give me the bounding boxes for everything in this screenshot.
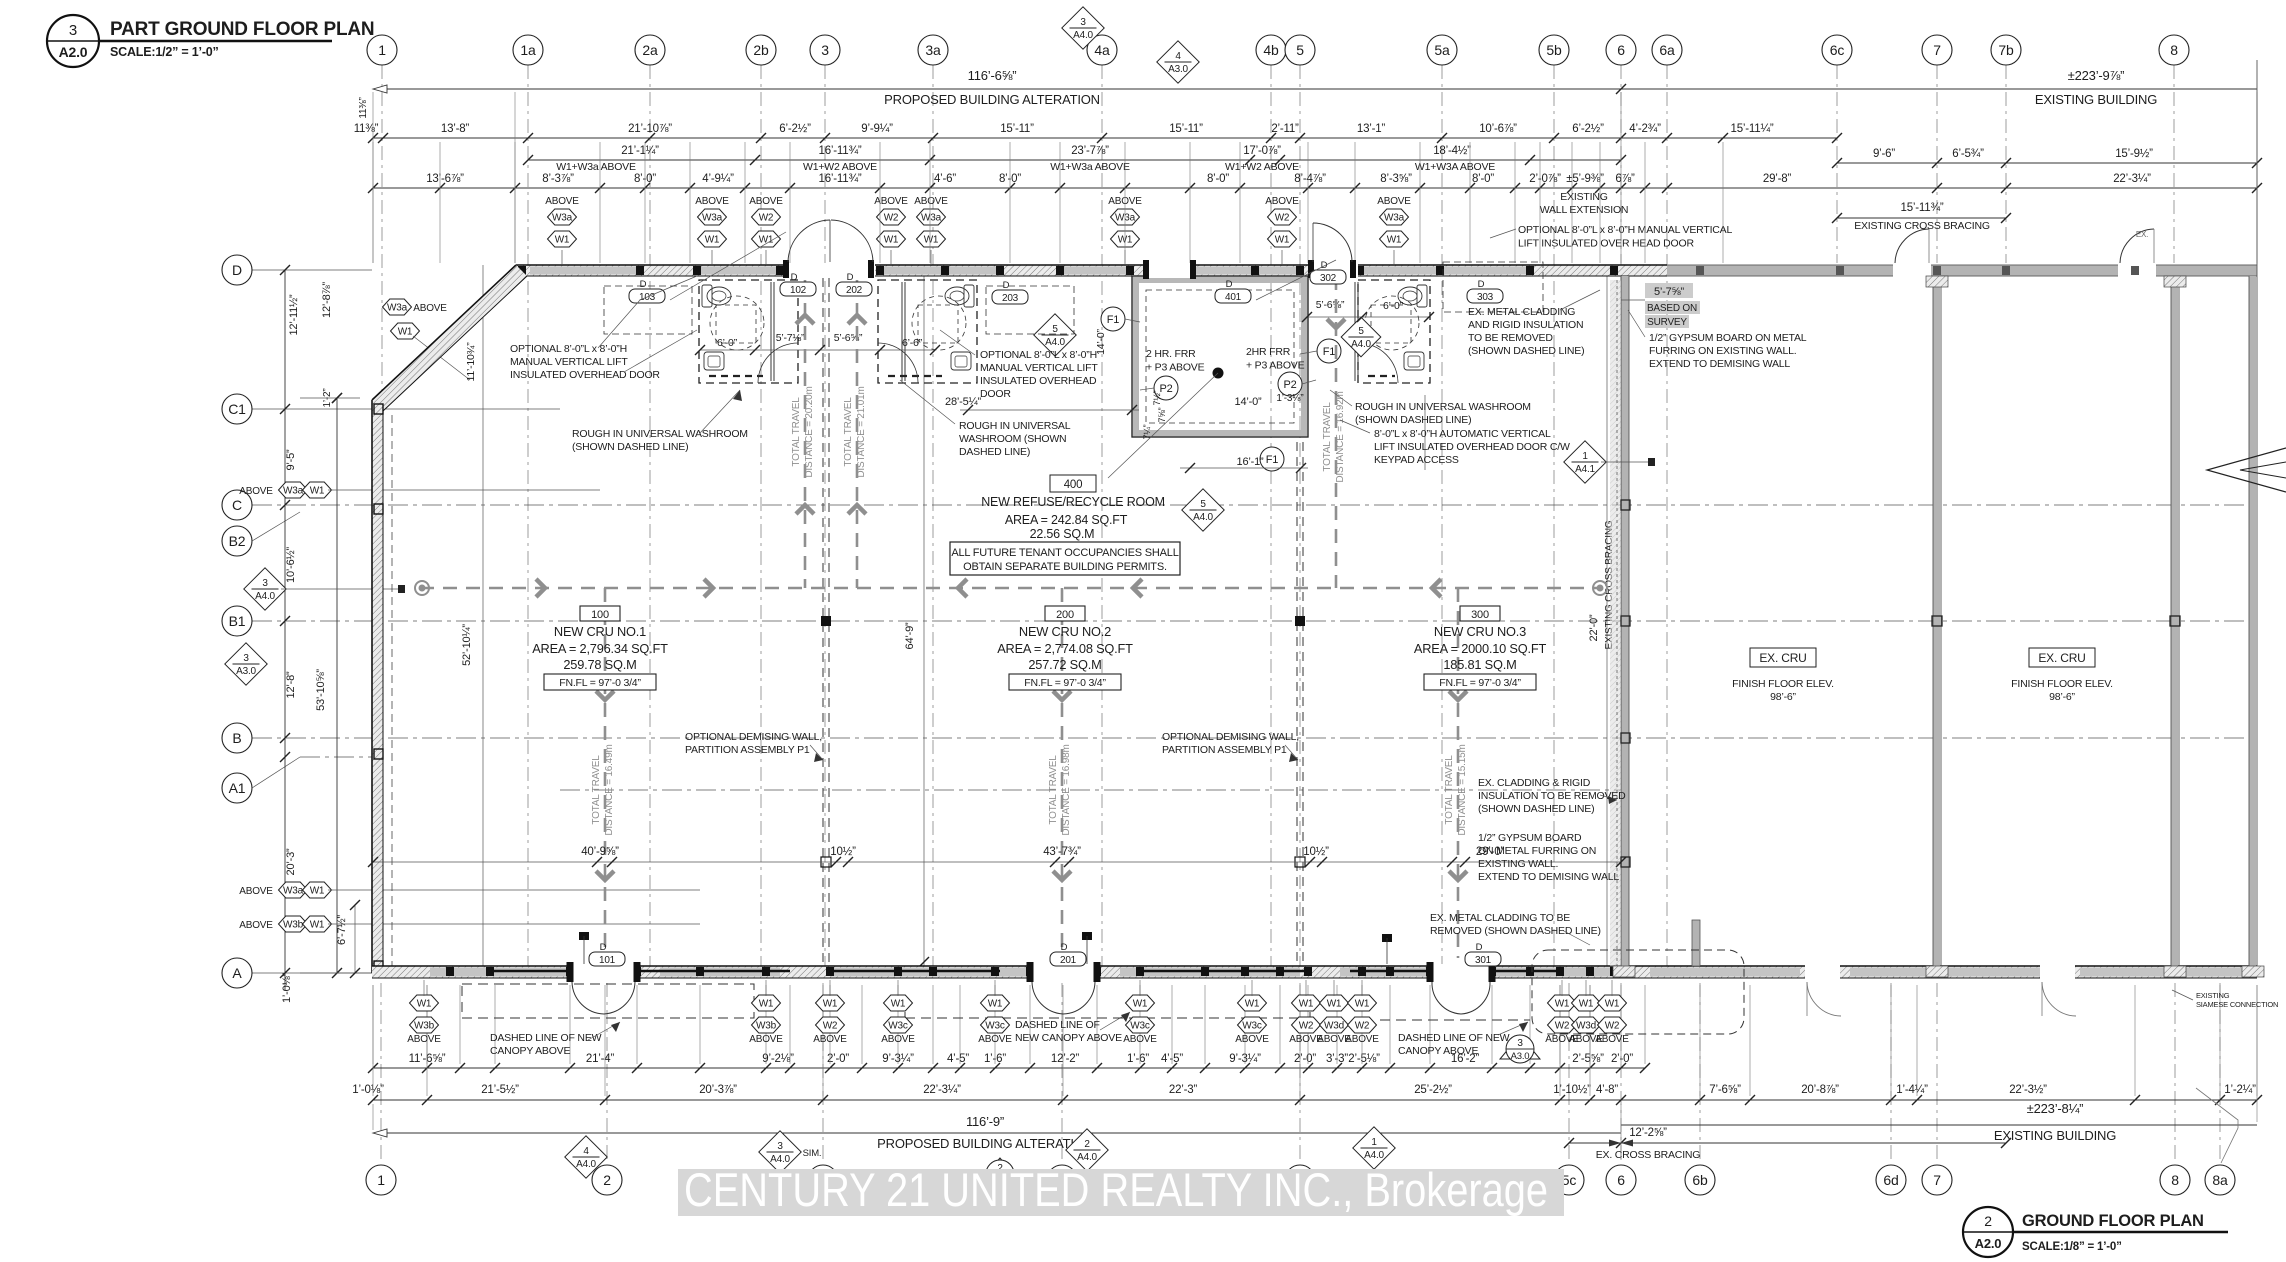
svg-text:D: D <box>600 942 607 953</box>
svg-text:102: 102 <box>790 285 807 296</box>
grid bubble 7 top <box>1922 35 1952 65</box>
door tag 302 <box>1310 260 1346 284</box>
svg-text:±223’-9⅞”: ±223’-9⅞” <box>2068 68 2125 83</box>
refuse diamond 5/A4.0 top <box>1034 314 1076 356</box>
svg-text:7¼”: 7¼” <box>1142 424 1152 439</box>
svg-text:ABOVE: ABOVE <box>239 486 273 497</box>
svg-text:EXISTING: EXISTING <box>2196 991 2230 1000</box>
svg-text:ABOVE: ABOVE <box>1377 196 1411 207</box>
title block top-left <box>47 15 99 67</box>
dimension row 2 top right <box>1837 162 2257 164</box>
svg-text:6’-0”: 6’-0” <box>717 337 738 349</box>
grid bubble 5a top <box>1427 35 1457 65</box>
overall dimension line top <box>373 88 2257 90</box>
svg-text:4: 4 <box>1175 51 1181 62</box>
svg-text:F1: F1 <box>1323 346 1336 358</box>
svg-text:PROPOSED BUILDING ALTERATION: PROPOSED BUILDING ALTERATION <box>877 1136 1093 1151</box>
left small dim lines <box>300 397 360 399</box>
refuse dim lines <box>960 409 1139 411</box>
svg-text:A4.0: A4.0 <box>576 1159 596 1170</box>
svg-text:W2: W2 <box>1555 1021 1570 1032</box>
svg-text:W1: W1 <box>310 886 325 897</box>
door tag 103 <box>629 279 665 303</box>
svg-text:W3a: W3a <box>387 303 408 314</box>
bottom double door grid 5a <box>1432 982 1461 1014</box>
svg-text:BASED ON: BASED ON <box>1647 303 1697 314</box>
svg-text:185.81 SQ.M: 185.81 SQ.M <box>1443 657 1516 672</box>
canopy rounded dashed at grid 6 <box>1532 950 1744 1034</box>
door tag 303 <box>1467 279 1503 303</box>
leader optional door left note <box>624 330 697 372</box>
svg-text:OBTAIN SEPARATE BUILDING PE: OBTAIN SEPARATE BUILDING PERMITS. <box>963 561 1167 573</box>
svg-text:C: C <box>232 497 242 513</box>
svg-text:23’-7⅞”: 23’-7⅞” <box>1071 145 1109 157</box>
svg-text:8’-3⅝”: 8’-3⅝” <box>1380 173 1412 185</box>
svg-text:5b: 5b <box>1546 42 1562 58</box>
svg-text:W3a: W3a <box>1384 213 1405 224</box>
svg-text:PARTITION ASSEMBLY P1: PARTITION ASSEMBLY P1 <box>685 744 810 756</box>
svg-text:GROUND FLOOR PLAN: GROUND FLOOR PLAN <box>2022 1212 2204 1230</box>
insulation hatch band left of grid 6 wall <box>1610 280 1621 966</box>
grid bubble 6d bottom <box>1876 1165 1906 1195</box>
svg-text:W3b: W3b <box>414 1021 435 1032</box>
dimension row 3 top <box>373 187 1667 189</box>
svg-text:W1: W1 <box>1245 999 1260 1010</box>
svg-text:SURVEY: SURVEY <box>1647 317 1687 328</box>
svg-text:A2.0: A2.0 <box>1975 1236 2002 1251</box>
svg-text:1’-2¼”: 1’-2¼” <box>2224 1084 2256 1096</box>
svg-text:FINISH FLOOR ELEV.: FINISH FLOOR ELEV. <box>2011 678 2113 690</box>
svg-text:ABOVE: ABOVE <box>1235 1034 1269 1045</box>
svg-text:8’-0”: 8’-0” <box>1472 173 1494 185</box>
grid bubble 1 top <box>367 35 397 65</box>
svg-text:8’-3⅞”: 8’-3⅞” <box>542 173 574 185</box>
svg-text:OPTIONAL 8’-0”L x 8’-0”H: OPTIONAL 8’-0”L x 8’-0”H <box>980 349 1097 361</box>
svg-text:8’-0”: 8’-0” <box>1207 173 1229 185</box>
svg-text:25’-2½”: 25’-2½” <box>1414 1084 1452 1096</box>
row bubble B2 leader <box>252 512 300 541</box>
svg-text:9’-9¼”: 9’-9¼” <box>861 123 893 135</box>
svg-text:15’-11”: 15’-11” <box>1000 123 1034 135</box>
demising wall column squares <box>821 616 831 626</box>
svg-text:MANUAL VERTICAL LIFT: MANUAL VERTICAL LIFT <box>510 356 628 368</box>
svg-text:21’-10⅞”: 21’-10⅞” <box>628 123 672 135</box>
room finish floor tag 200 <box>1009 674 1121 690</box>
svg-text:8’-4⅞”: 8’-4⅞” <box>1294 173 1326 185</box>
svg-text:TOTAL TRAVEL: TOTAL TRAVEL <box>1444 755 1455 825</box>
svg-text:W1: W1 <box>1133 999 1148 1010</box>
svg-text:W3b: W3b <box>756 1021 777 1032</box>
svg-text:7½”: 7½” <box>1152 390 1162 405</box>
svg-text:203: 203 <box>1002 293 1019 304</box>
svg-text:SCALE:1/2” = 1’-0”: SCALE:1/2” = 1’-0” <box>110 45 219 59</box>
svg-text:1’-0⅛”: 1’-0⅛” <box>352 1084 384 1096</box>
top diamond 4/A3.0 <box>1157 41 1199 83</box>
travel vertical washroom a <box>804 280 807 588</box>
svg-text:17’-0⅞”: 17’-0⅞” <box>1243 145 1281 157</box>
svg-text:4’-8”: 4’-8” <box>1596 1084 1618 1096</box>
svg-text:10’-6½”: 10’-6½” <box>285 547 297 583</box>
refuse tag F1 b <box>1317 339 1341 363</box>
svg-text:OPTIONAL 8’-0”L x 8’-0”H M: OPTIONAL 8’-0”L x 8’-0”H MANUAL VERTICAL <box>1518 224 1732 236</box>
svg-text:DISTANCE = 16.92m: DISTANCE = 16.92m <box>1335 391 1346 482</box>
svg-text:201: 201 <box>1060 955 1077 966</box>
refuse tag F1 c <box>1260 447 1284 471</box>
diamond 1/A4.1 <box>1564 441 1606 483</box>
svg-text:D: D <box>1226 279 1233 290</box>
grid bubble 5 bottom <box>1285 1165 1315 1195</box>
washroom zone dashed CRU3 <box>1443 262 1543 312</box>
svg-text:DISTANCE = 15.15m: DISTANCE = 15.15m <box>1457 744 1468 835</box>
svg-text:ABOVE: ABOVE <box>413 303 447 314</box>
bottom symbol 2/A3.0 <box>978 1158 1022 1184</box>
svg-text:13’-6⅞”: 13’-6⅞” <box>426 173 464 185</box>
svg-text:11⅜”: 11⅜” <box>358 97 369 118</box>
svg-text:KEYPAD ACCESS: KEYPAD ACCESS <box>1374 454 1459 466</box>
svg-text:15’-11¾”: 15’-11¾” <box>1901 202 1944 214</box>
symbol 3/A3.0 circle right <box>1500 1035 1540 1059</box>
svg-text:10½”: 10½” <box>830 846 856 858</box>
door tag 202 <box>836 272 872 296</box>
svg-text:64’-9”: 64’-9” <box>904 622 916 649</box>
svg-text:P2: P2 <box>1283 379 1296 391</box>
diagonal wall top-left corner <box>372 265 527 411</box>
svg-text:W1+W2 ABOVE: W1+W2 ABOVE <box>1225 161 1299 173</box>
svg-text:21’-4”: 21’-4” <box>586 1053 615 1065</box>
svg-text:INSULATED OVERHEAD: INSULATED OVERHEAD <box>980 375 1097 387</box>
svg-text:C1: C1 <box>228 401 246 417</box>
svg-text:3: 3 <box>777 1141 783 1152</box>
svg-text:1: 1 <box>1371 1137 1377 1148</box>
svg-text:D: D <box>791 272 798 283</box>
svg-text:FINISH FLOOR ELEV.: FINISH FLOOR ELEV. <box>1732 678 1834 690</box>
refuse room door opening <box>1146 263 1190 278</box>
svg-text:WASHROOM (SHOWN: WASHROOM (SHOWN <box>959 433 1066 445</box>
svg-text:5a: 5a <box>1434 42 1450 58</box>
door tag 102 <box>780 272 816 296</box>
top wall door jambs <box>783 260 1356 278</box>
svg-text:4a: 4a <box>1094 42 1110 58</box>
svg-text:401: 401 <box>1225 292 1242 303</box>
svg-text:1: 1 <box>378 42 386 58</box>
row bubble C <box>222 490 252 520</box>
svg-text:3: 3 <box>243 653 249 664</box>
svg-text:1: 1 <box>1582 451 1588 462</box>
svg-text:22’-0”: 22’-0” <box>1588 614 1600 641</box>
door center markers bottom <box>579 932 589 940</box>
svg-text:DASHED LINE OF NEW: DASHED LINE OF NEW <box>490 1032 602 1044</box>
top diamond 3/A4.0 <box>1062 7 1104 49</box>
svg-text:A1: A1 <box>229 780 246 796</box>
svg-text:W3c: W3c <box>1242 1021 1262 1032</box>
svg-text:7b: 7b <box>1998 42 2014 58</box>
svg-text:D: D <box>1476 942 1483 953</box>
svg-text:10½”: 10½” <box>1303 846 1329 858</box>
svg-text:DOOR: DOOR <box>980 388 1011 400</box>
svg-text:4’-2¾”: 4’-2¾” <box>1629 123 1661 135</box>
room tag 100 <box>580 606 620 621</box>
svg-text:2: 2 <box>1084 1139 1090 1150</box>
svg-text:A4.0: A4.0 <box>1193 512 1213 523</box>
overall dimension line bottom <box>373 1132 1621 1134</box>
svg-text:43’-7¾”: 43’-7¾” <box>1043 846 1081 858</box>
svg-text:EX. METAL CLADDING TO BE: EX. METAL CLADDING TO BE <box>1430 912 1570 924</box>
svg-text:W2: W2 <box>1605 1021 1620 1032</box>
svg-text:A3.0: A3.0 <box>1168 64 1188 75</box>
svg-text:9’-5”: 9’-5” <box>285 449 297 471</box>
row bubble A1 leader <box>252 757 300 788</box>
grid bubble 6b bottom <box>1685 1165 1715 1195</box>
svg-text:116’-6⅝”: 116’-6⅝” <box>968 68 1017 83</box>
svg-text:TOTAL TRAVEL: TOTAL TRAVEL <box>843 397 854 467</box>
row bubble C1 <box>222 394 252 424</box>
svg-text:SCALE:1/8” = 1’-0”: SCALE:1/8” = 1’-0” <box>2022 1241 2122 1253</box>
svg-text:EXISTING WALL.: EXISTING WALL. <box>1478 858 1558 870</box>
svg-text:OPTIONAL DEMISING WALL,: OPTIONAL DEMISING WALL, <box>685 731 822 743</box>
svg-text:ABOVE: ABOVE <box>914 196 948 207</box>
svg-text:FURRING ON EXISTING WALL.: FURRING ON EXISTING WALL. <box>1649 345 1796 357</box>
svg-text:D: D <box>1003 280 1010 291</box>
svg-text:101: 101 <box>599 955 616 966</box>
svg-text:6d: 6d <box>1883 1172 1898 1188</box>
travel vertical refuse <box>1335 276 1338 588</box>
grid bubble 5b top <box>1539 35 1569 65</box>
svg-text:B1: B1 <box>229 613 246 629</box>
svg-text:CENTURY 21 UNITED REALTY INC.,: CENTURY 21 UNITED REALTY INC., Brokerage <box>684 1163 1548 1216</box>
grid6 survey dim line <box>1621 299 1645 301</box>
left wall inner dashed line <box>391 415 393 966</box>
svg-text:A4.1: A4.1 <box>1575 464 1595 475</box>
svg-text:MANUAL VERTICAL LIFT: MANUAL VERTICAL LIFT <box>980 362 1098 374</box>
svg-text:W1: W1 <box>1387 235 1402 246</box>
svg-text:20’-3”: 20’-3” <box>285 848 297 875</box>
top double door at grid 3 <box>788 220 830 262</box>
travel vertical CRU3 <box>1457 588 1460 958</box>
svg-text:W1: W1 <box>1355 999 1370 1010</box>
demising wall at grid 5 <box>1296 442 1298 964</box>
svg-text:W1+W3a ABOVE: W1+W3a ABOVE <box>1050 161 1130 173</box>
svg-text:16’-11¾”: 16’-11¾” <box>819 145 862 157</box>
svg-text:15’-9½”: 15’-9½” <box>2115 148 2153 160</box>
extension lines bottom <box>373 985 2257 1160</box>
svg-text:ABOVE: ABOVE <box>813 1034 847 1045</box>
svg-text:+ P3 ABOVE: + P3 ABOVE <box>1146 362 1205 374</box>
dimension row 1 bottom <box>373 1067 1645 1069</box>
row bubble B2 <box>222 526 252 556</box>
door tag 101 <box>589 942 625 966</box>
door tag 301 <box>1465 942 1501 966</box>
svg-text:22’-3¼”: 22’-3¼” <box>2113 173 2151 185</box>
svg-text:5’-7⅝”: 5’-7⅝” <box>1654 286 1685 298</box>
svg-text:12’-8⅞”: 12’-8⅞” <box>321 282 333 318</box>
svg-text:28’-5¼”: 28’-5¼” <box>945 396 981 408</box>
travel path start dot <box>415 581 429 595</box>
svg-text:TOTAL TRAVEL: TOTAL TRAVEL <box>591 755 602 825</box>
bottom hexagon stacks <box>410 995 439 1011</box>
svg-text:3: 3 <box>1080 17 1086 28</box>
room tag 200 <box>1045 606 1085 621</box>
svg-text:NEW CRU NO.3: NEW CRU NO.3 <box>1434 624 1526 639</box>
row bubble A1 <box>222 773 252 803</box>
svg-text:W2: W2 <box>1275 213 1290 224</box>
svg-text:NEW CRU NO.1: NEW CRU NO.1 <box>554 624 646 639</box>
svg-text:PARTITION ASSEMBLY P1: PARTITION ASSEMBLY P1 <box>1162 744 1287 756</box>
grid bubble 5c bottom <box>1554 1165 1584 1195</box>
svg-text:1’-4¼”: 1’-4¼” <box>1896 1084 1928 1096</box>
svg-text:DASHED LINE OF NEW: DASHED LINE OF NEW <box>1398 1032 1510 1044</box>
svg-text:9’-6”: 9’-6” <box>1873 148 1895 160</box>
svg-text:FN.FL = 97’-0 3/4”: FN.FL = 97’-0 3/4” <box>1439 677 1521 689</box>
svg-text:2’-5⅛”: 2’-5⅛” <box>1348 1053 1380 1065</box>
svg-text:5: 5 <box>1052 324 1058 335</box>
existing wall stub near 6b <box>1692 920 1700 966</box>
canopy dashed CRU1 <box>462 984 754 1018</box>
svg-text:W2: W2 <box>1299 1021 1314 1032</box>
svg-text:200: 200 <box>1056 609 1074 621</box>
svg-text:3: 3 <box>1517 1038 1523 1049</box>
svg-text:9’-2⅛”: 9’-2⅛” <box>762 1053 794 1065</box>
left wall <box>372 400 383 973</box>
svg-text:ABOVE: ABOVE <box>749 196 783 207</box>
svg-text:7: 7 <box>1933 1172 1941 1188</box>
room finish floor tag 300 <box>1424 674 1536 690</box>
svg-text:D: D <box>640 279 647 290</box>
svg-text:W1: W1 <box>823 999 838 1010</box>
svg-text:2’-5⅝”: 2’-5⅝” <box>1572 1053 1604 1065</box>
svg-text:W1: W1 <box>1118 235 1133 246</box>
bottom wall door openings <box>570 964 2075 980</box>
svg-text:7: 7 <box>1933 42 1941 58</box>
svg-text:A4.0: A4.0 <box>255 591 275 602</box>
svg-text:NEW REFUSE/RECYCLE ROOM: NEW REFUSE/RECYCLE ROOM <box>981 495 1165 509</box>
existing interior wall at grid 7 <box>1933 276 1941 966</box>
svg-text:W1: W1 <box>891 999 906 1010</box>
svg-text:W1: W1 <box>310 486 325 497</box>
svg-text:ROUGH IN UNIVERSAL: ROUGH IN UNIVERSAL <box>959 420 1071 432</box>
svg-text:REMOVED (SHOWN DASHED LINE): REMOVED (SHOWN DASHED LINE) <box>1430 925 1601 937</box>
svg-text:53’-10⅝”: 53’-10⅝” <box>315 669 327 711</box>
grid bubble 4a top <box>1087 35 1117 65</box>
svg-text:AREA = 2,774.08 SQ.FT: AREA = 2,774.08 SQ.FT <box>997 641 1133 656</box>
svg-text:1a: 1a <box>520 42 536 58</box>
hexagons W3a ABOVE on diagonal <box>383 299 412 315</box>
svg-text:6c: 6c <box>1830 42 1845 58</box>
travel path horizontal <box>420 587 1600 590</box>
washroom 1 rough-in <box>699 280 798 383</box>
svg-text:EX. CRU: EX. CRU <box>2038 651 2085 665</box>
svg-text:NEW CRU NO.2: NEW CRU NO.2 <box>1019 624 1111 639</box>
bottom diamonds <box>565 1136 607 1178</box>
svg-text:W3a: W3a <box>702 213 723 224</box>
svg-text:EXTEND TO DEMISING WALL: EXTEND TO DEMISING WALL <box>1649 358 1790 370</box>
demising wall new-existing at grid 6 <box>1621 276 1629 966</box>
svg-text:W1: W1 <box>310 920 325 931</box>
svg-text:A4.0: A4.0 <box>1045 337 1065 348</box>
svg-text:D: D <box>847 272 854 283</box>
svg-text:TO BE REMOVED: TO BE REMOVED <box>1468 332 1553 344</box>
bottom double door grid 2 <box>572 982 604 1014</box>
svg-text:1’-0⅛”: 1’-0⅛” <box>281 972 293 1003</box>
svg-text:22’-3½”: 22’-3½” <box>2009 1084 2047 1096</box>
svg-text:29’-8”: 29’-8” <box>1763 173 1792 185</box>
svg-text:259.78 SQ.M: 259.78 SQ.M <box>563 657 636 672</box>
existing door arc bottom 2 <box>2042 982 2076 1016</box>
svg-text:40’-9⅝”: 40’-9⅝” <box>581 846 619 858</box>
svg-text:EXTEND TO DEMISING WALL: EXTEND TO DEMISING WALL <box>1478 871 1619 883</box>
interior vertical dim 52-10 <box>482 265 484 971</box>
svg-text:SIAMESE CONNECTION: SIAMESE CONNECTION <box>2196 1000 2278 1009</box>
svg-text:A4.0: A4.0 <box>1073 30 1093 41</box>
dim 12'-2 5/8 ex cross bracing bottom <box>1569 1142 2006 1144</box>
travel chevrons horizontal <box>536 579 545 597</box>
interior vertical dim 64-9 <box>923 271 925 971</box>
canopy dashed CRU2 <box>905 1017 1310 1019</box>
svg-text:W1: W1 <box>398 327 413 338</box>
grid bubble 6c top <box>1822 35 1852 65</box>
travel vertical CRU1 <box>604 588 607 958</box>
svg-text:22’-3”: 22’-3” <box>1169 1084 1198 1096</box>
svg-text:2’-0”: 2’-0” <box>1611 1053 1633 1065</box>
svg-text:D: D <box>1321 260 1328 271</box>
svg-text:14’-0”: 14’-0” <box>1235 396 1262 408</box>
svg-text:W3a: W3a <box>552 213 573 224</box>
svg-text:2’-11”: 2’-11” <box>1271 123 1299 135</box>
svg-text:ON METAL FURRING ON: ON METAL FURRING ON <box>1478 845 1596 857</box>
top wall band existing building <box>1621 265 2257 276</box>
svg-text:ABOVE: ABOVE <box>1123 1034 1157 1045</box>
svg-text:18’-4½”: 18’-4½” <box>1433 145 1471 157</box>
left diamond 3/A3.0 <box>225 643 267 685</box>
existing right edge wall <box>2249 60 2257 966</box>
gypsum dashed line at grid 6 wall <box>1616 280 1618 966</box>
svg-text:4’-9¼”: 4’-9¼” <box>702 173 734 185</box>
svg-text:EX. CRU: EX. CRU <box>1759 651 1806 665</box>
svg-text:13’-1”: 13’-1” <box>1357 123 1386 135</box>
svg-text:W3a: W3a <box>283 886 304 897</box>
travel chevrons vertical <box>596 691 614 700</box>
svg-text:202: 202 <box>846 285 863 296</box>
svg-text:OPTIONAL 8’-0”L x 8’-0”H: OPTIONAL 8’-0”L x 8’-0”H <box>510 343 627 355</box>
svg-text:(SHOWN DASHED LINE): (SHOWN DASHED LINE) <box>1478 803 1594 815</box>
svg-text:257.72 SQ.M: 257.72 SQ.M <box>1028 657 1101 672</box>
svg-text:303: 303 <box>1477 292 1494 303</box>
svg-text:DISTANCE = 16.49m: DISTANCE = 16.49m <box>604 744 615 835</box>
grid bubble 6 top <box>1606 35 1636 65</box>
all future tenant note box <box>950 542 1180 575</box>
svg-text:8a: 8a <box>2212 1172 2228 1188</box>
svg-text:12’-2⅝”: 12’-2⅝” <box>1629 1127 1667 1139</box>
grid row lines <box>252 270 2257 973</box>
svg-text:B2: B2 <box>229 533 246 549</box>
svg-text:98’-6”: 98’-6” <box>1770 691 1796 703</box>
svg-text:W1: W1 <box>417 999 432 1010</box>
svg-text:6b: 6b <box>1692 1172 1708 1188</box>
bottom wall door jambs <box>567 962 1496 982</box>
svg-text:(SHOWN DASHED LINE): (SHOWN DASHED LINE) <box>572 441 688 453</box>
svg-text:1/2” GYPSUM BOARD ON METAL: 1/2” GYPSUM BOARD ON METAL <box>1649 332 1807 344</box>
svg-text:EX. CLADDING & RIGID: EX. CLADDING & RIGID <box>1478 777 1591 789</box>
svg-text:AND RIGID INSULATION: AND RIGID INSULATION <box>1468 319 1583 331</box>
svg-text:INSULATED OVERHEAD DOOR: INSULATED OVERHEAD DOOR <box>510 369 660 381</box>
refuse diamond 5/A4.0 bottom <box>1182 489 1224 531</box>
dim 15'-11 3/4 existing cross bracing <box>1837 217 2006 219</box>
survey highlight note <box>1645 283 1693 298</box>
svg-text:W1: W1 <box>924 235 939 246</box>
existing wall mullions top <box>1696 266 2139 275</box>
grid bubble 3a top <box>918 35 948 65</box>
travel vertical washroom b <box>856 280 859 588</box>
dimension row 1 top <box>373 137 1837 139</box>
